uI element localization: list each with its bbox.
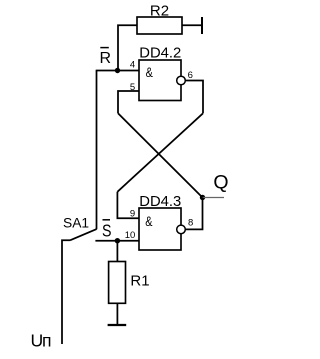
wire node S to pin 10 [95,240,139,242]
junction node S [115,238,120,243]
svg-text:6: 6 [188,70,193,81]
wire switch pole [62,240,70,344]
wire node S down to R1 [116,241,118,262]
svg-text:Uп: Uп [31,331,52,351]
wire Q stub [203,197,225,199]
svg-text:&: & [145,213,153,229]
wire Q down to pin 8 [185,198,202,230]
junction node R [115,68,120,73]
wire R2 to terminal [182,24,202,26]
wire pin 5 [118,91,140,113]
wire pin 6 out [185,81,203,114]
svg-text:R2: R2 [150,3,169,20]
inversion circle pin 6 [177,76,186,85]
terminal at R2 right [201,17,203,34]
svg-text:8: 8 [188,218,193,229]
resistor R1 [109,262,126,304]
gate DD4.3 [139,208,181,250]
svg-text:&: & [146,64,154,80]
wire node R to pin 4 [96,70,140,72]
svg-text:S: S [102,220,112,240]
svg-text:10: 10 [125,230,136,241]
resistor R2 [137,17,182,34]
svg-text:R: R [100,50,112,67]
junction node Q [200,195,205,200]
wire left vertical (R branch to switch top contact) [96,71,98,230]
svg-text:SA1: SA1 [63,215,89,230]
svg-text:Q: Q [213,172,228,194]
inversion circle pin 8 [177,225,186,234]
switch SA1 arm [70,229,97,240]
svg-text:DD4.2: DD4.2 [139,46,181,62]
ground [108,324,127,326]
wire cross diagonal B [117,113,203,192]
op-amp gate DD4.2 [139,60,181,101]
svg-text:9: 9 [130,209,135,220]
svg-text:4: 4 [130,59,135,70]
wire R1 to ground [116,303,118,325]
svg-text:DD4.3: DD4.3 [139,194,181,210]
svg-text:R1: R1 [130,272,149,289]
wire cross diagonal A [118,113,203,197]
wire from R2 down to node R [118,25,137,70]
wire down to pin 9 [117,192,139,219]
